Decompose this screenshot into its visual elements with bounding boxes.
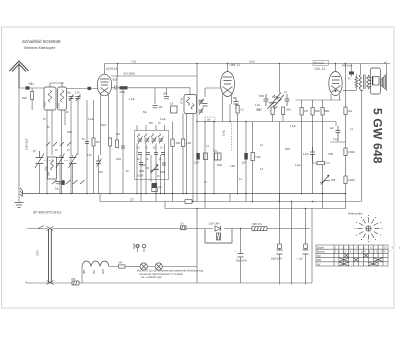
- tube UCH11: [97, 64, 111, 105]
- trimmer C10: [199, 108, 204, 115]
- wire x197 power: [196, 209, 198, 284]
- capacitor C26: [303, 147, 315, 160]
- label UCL11 box: [313, 61, 329, 71]
- svg-text:5000: 5000: [217, 165, 223, 167]
- IF transformer ZF1: [182, 95, 197, 114]
- trimmer C2: [67, 93, 74, 102]
- switch contacts wave band: [46, 142, 71, 146]
- svg-text:UCL 11: UCL 11: [315, 67, 326, 71]
- resistor R12: [300, 100, 309, 194]
- ground chassis arrow: [20, 188, 29, 197]
- capacitor C21 electrolytic: [194, 153, 208, 165]
- svg-text:12 10 9 12 64 8 12 64 7: 12 10 9 12 64 8 12 64 7: [335, 252, 391, 254]
- antenna: [10, 61, 29, 88]
- svg-text:5 GW 648: 5 GW 648: [371, 108, 385, 164]
- component on drop: [152, 188, 157, 192]
- junction dots bus2 bus3: [140, 193, 346, 230]
- transformer secondary: [367, 75, 372, 89]
- svg-text:1,2µF: 1,2µF: [129, 99, 135, 101]
- svg-text:UCL: UCL: [94, 269, 96, 274]
- svg-text:2x45+30pF: 2x45+30pF: [27, 138, 29, 150]
- svg-text:ZF 468 (472 kHz): ZF 468 (472 kHz): [32, 211, 61, 215]
- junction dots mid: [196, 121, 198, 123]
- bus 3: [165, 208, 346, 210]
- capacitor C6: [113, 80, 119, 90]
- svg-text:50µF: 50µF: [113, 80, 119, 82]
- svg-text:Siemens Kleinsuper: Siemens Kleinsuper: [24, 46, 56, 50]
- rotary switch: [348, 213, 371, 232]
- wire x336 drop: [330, 122, 346, 143]
- svg-text:WK 20mA: WK 20mA: [314, 62, 325, 65]
- wire audio line: [197, 121, 336, 123]
- wire top of cans: [50, 83, 62, 87]
- svg-text:Spulen: Spulen: [317, 248, 325, 250]
- svg-text:10µF: 10µF: [194, 163, 200, 165]
- wire UBF grid: [205, 88, 221, 97]
- svg-text:5000: 5000: [285, 149, 291, 151]
- svg-text:0,1µF: 0,1µF: [333, 139, 339, 141]
- svg-text:Wird U (UY 11) nicht verwende: Wird U (UY 11) nicht verwendet dann gest…: [137, 270, 204, 273]
- detector cluster box: [135, 123, 169, 180]
- resistor R3: [92, 138, 101, 146]
- resistor R17: [344, 148, 355, 156]
- wire right chain x345: [345, 64, 347, 194]
- rotary ticks: [358, 218, 380, 240]
- svg-text:U5A: U5A: [71, 278, 76, 281]
- gang dashed link: [44, 160, 68, 162]
- svg-text:Wellenschalter: Wellenschalter: [348, 213, 363, 216]
- svg-text:0,5M: 0,5M: [230, 166, 235, 168]
- svg-text:0,1µ: 0,1µ: [213, 151, 218, 153]
- wire L1 secondary drop: [47, 110, 65, 194]
- note text: [137, 270, 204, 280]
- speaker basket: [370, 68, 380, 94]
- table: [316, 245, 400, 266]
- diode rectifier: [209, 223, 221, 232]
- svg-text:50 kΩ: 50 kΩ: [249, 62, 255, 64]
- coil can L1 Vorkreis: [44, 87, 57, 110]
- svg-text:Bereich: Bereich: [317, 251, 325, 254]
- capacitor C28: [271, 244, 283, 261]
- cluster marks: [139, 163, 166, 173]
- capacitor C7b: [163, 94, 169, 99]
- svg-text:3 kΩ: 3 kΩ: [255, 105, 260, 107]
- lamp L1: [140, 263, 147, 270]
- wire cluster drops: [137, 144, 165, 194]
- wire bottom right up: [311, 209, 313, 284]
- wire trimmer drops: [71, 99, 78, 194]
- svg-text:UCH 250kΩ: UCH 250kΩ: [123, 74, 135, 76]
- svg-text:15 kΩ: 15 kΩ: [224, 130, 226, 136]
- svg-text:8µF: 8µF: [242, 163, 247, 165]
- svg-text:220V: 220V: [37, 250, 40, 256]
- rotary dots: [355, 215, 383, 242]
- tuning capacitor C4c: [69, 154, 78, 194]
- junction dots lineA: [196, 63, 198, 65]
- trimmer C13: [152, 137, 157, 144]
- capacitor C30: [55, 181, 65, 191]
- wire antenna to input: [19, 87, 44, 89]
- box LW: [205, 117, 215, 122]
- resistor R4: [109, 138, 112, 146]
- resistor R20 zigzag: [355, 75, 358, 91]
- trimmer C9: [199, 99, 204, 106]
- resistor R5: [116, 140, 119, 148]
- power top wire: [27, 228, 310, 230]
- resistor R1 1M: [22, 88, 34, 110]
- bus 2: [100, 201, 362, 203]
- capacitor C22: [213, 151, 221, 161]
- capacitor C7: [82, 139, 89, 144]
- svg-text:URB 1/51: URB 1/51: [252, 224, 263, 226]
- capacitor C24: [284, 92, 290, 106]
- svg-text:0,1µF: 0,1µF: [160, 119, 166, 121]
- resistor R19: [348, 64, 354, 81]
- wire right link: [25, 282, 27, 284]
- svg-text:und statt der Gleichrichterroh: und statt der Gleichrichterrohre UY 11 d…: [139, 273, 183, 276]
- wire UBF drops: [214, 104, 253, 202]
- RC network box: [205, 229, 232, 244]
- trimmer C11: [138, 137, 143, 144]
- capacitor C17: [154, 153, 158, 155]
- component G10: [130, 200, 192, 204]
- capacitor C7a: [153, 106, 164, 110]
- svg-text:Schaltbild 5GW648: Schaltbild 5GW648: [22, 39, 61, 44]
- svg-text:2µF: 2µF: [330, 128, 335, 130]
- svg-text:+ 1µF: + 1µF: [297, 259, 303, 261]
- svg-text:1kΩ: 1kΩ: [348, 111, 352, 113]
- svg-text:UBF: UBF: [84, 269, 86, 274]
- svg-text:1kΩ: 1kΩ: [256, 110, 260, 112]
- trimmer C12: [145, 137, 150, 144]
- ground: [15, 203, 24, 208]
- resistor R13: [311, 100, 320, 194]
- resistor R6: [171, 122, 181, 194]
- wire IF drops: [187, 64, 206, 202]
- wire grid feed: [66, 88, 98, 90]
- wire bus link stubs: [141, 194, 323, 209]
- wire drops right power: [280, 194, 306, 285]
- svg-text:0,1µF: 0,1µF: [303, 154, 309, 156]
- capacitor C29: [297, 244, 309, 261]
- svg-text:1MΩ: 1MΩ: [286, 110, 291, 112]
- svg-text:UBF 11: UBF 11: [230, 63, 241, 67]
- wire osc grid drops: [87, 76, 123, 194]
- resistor R14: [321, 100, 330, 194]
- oscillator coil L3: [48, 157, 57, 179]
- svg-text:0,3M: 0,3M: [186, 143, 191, 145]
- wire C4a drop: [39, 164, 41, 194]
- transformer NF diagonal: [268, 93, 285, 112]
- tuning capacitor C4a: [35, 151, 44, 168]
- tuning capacitor C4b: [56, 154, 65, 194]
- svg-text:220V URA: 220V URA: [209, 223, 220, 226]
- svg-text:50µF/100V: 50µF/100V: [236, 261, 248, 263]
- wire bus1-bus3 link: [100, 194, 346, 209]
- resistor R9: [251, 153, 261, 161]
- switch contacts row2: [52, 180, 85, 184]
- svg-text:0,3MΩ: 0,3MΩ: [348, 152, 355, 154]
- trimmer C5 padding: [96, 155, 102, 194]
- coil can L2: [58, 87, 67, 110]
- resistor R8: [236, 104, 244, 194]
- wire driver vertical: [279, 64, 281, 194]
- transformer core: [364, 75, 366, 90]
- svg-text:1 2 3 4 5 6 7 8 9 10: 1 2 3 4 5 6 7 8 9 10: [335, 248, 400, 250]
- resistor R15: [313, 160, 331, 165]
- wire top line A: [105, 63, 391, 65]
- svg-text:0,5M: 0,5M: [256, 157, 261, 159]
- svg-text:3-30: 3-30: [87, 155, 92, 157]
- misc value labels: [33, 127, 354, 184]
- svg-text:1MΩ: 1MΩ: [176, 143, 181, 145]
- svg-text:Vorkr.: Vorkr.: [44, 101, 47, 107]
- switch mains: [38, 226, 44, 229]
- tube UCL11: [329, 64, 342, 101]
- capacitor C18: [161, 153, 165, 155]
- svg-text:mit + verbinden (vgl): mit + verbinden (vgl): [141, 276, 162, 279]
- svg-text:1500: 1500: [59, 102, 61, 108]
- trimmer C3: [75, 93, 81, 102]
- capacitor C1 ant coupling: [26, 84, 35, 90]
- lamp L2: [147, 263, 197, 270]
- capacitor C25: [330, 126, 341, 141]
- capacitor C16: [146, 153, 150, 155]
- svg-text:400Ω: 400Ω: [120, 92, 126, 94]
- capacitor C20b: [233, 97, 239, 110]
- speaker cone: [381, 75, 386, 90]
- svg-text:Osz.: Osz.: [49, 171, 51, 176]
- tube UBF11: [221, 64, 235, 105]
- svg-text:0,1µF: 0,1µF: [290, 126, 296, 128]
- power bottom wire: [26, 282, 312, 284]
- svg-text:0,1µF: 0,1µF: [295, 165, 301, 167]
- wire x361: [361, 90, 363, 202]
- resistor R10: [271, 107, 274, 122]
- wire speaker right: [343, 62, 386, 91]
- svg-text:5MΩ: 5MΩ: [325, 111, 330, 113]
- capacitor C27 electrolytic: [235, 229, 248, 284]
- wire anode branch: [155, 88, 167, 104]
- svg-text:Osz.: Osz.: [46, 165, 48, 170]
- resistor R11: [256, 107, 291, 122]
- svg-text:50µF: 50µF: [101, 125, 107, 127]
- svg-text:UCH: UCH: [103, 269, 105, 274]
- cluster labels: [137, 148, 163, 179]
- svg-text:1200: 1200: [116, 159, 122, 161]
- junction dots bus: [46, 193, 323, 203]
- potentiometer volume: [150, 165, 159, 174]
- table crosses: [339, 253, 383, 266]
- coil L4: [138, 134, 161, 138]
- svg-text:2000: 2000: [67, 132, 73, 134]
- capacitor C21b electrolytic: [242, 153, 248, 165]
- svg-text:ZF Sp: ZF Sp: [182, 97, 184, 104]
- component U5A: [71, 278, 79, 285]
- fuse: [181, 224, 187, 230]
- resistor R25 box: [170, 104, 177, 114]
- wire AVC dashed: [231, 123, 233, 151]
- bus 1 chassis: [29, 193, 346, 195]
- svg-text:PhB: PhB: [331, 180, 336, 182]
- mains lead double: [47, 227, 54, 285]
- transformer output primary: [359, 64, 361, 91]
- svg-text:1MΩ: 1MΩ: [22, 98, 27, 100]
- resistor R18: [344, 176, 355, 184]
- svg-text:UCH 11: UCH 11: [106, 67, 117, 71]
- resistor R21 640: [119, 263, 141, 269]
- capacitor C19 electrolytic: [152, 183, 163, 189]
- svg-text:2-10: 2-10: [75, 93, 80, 95]
- svg-text:50pF: 50pF: [199, 101, 205, 103]
- svg-text:3MΩ: 3MΩ: [315, 111, 320, 113]
- svg-text:0,1µF: 0,1µF: [88, 119, 94, 121]
- svg-text:100pF: 100pF: [137, 176, 144, 178]
- svg-text:5000: 5000: [259, 96, 265, 98]
- heater chain bumps: [82, 261, 119, 283]
- svg-text:7 kΩ: 7 kΩ: [131, 62, 136, 64]
- resistor R2 anode: [112, 86, 191, 94]
- svg-text:0,5M: 0,5M: [328, 154, 333, 156]
- capacitor C20: [199, 101, 208, 107]
- potentiometer PhB: [320, 175, 336, 185]
- coupling network C23: [259, 94, 269, 106]
- resistor URB hatched: [252, 224, 267, 231]
- svg-text:50µF/100V: 50µF/100V: [271, 259, 283, 261]
- svg-text:0,3MΩ: 0,3MΩ: [348, 180, 355, 182]
- wire UCL cathode row: [296, 99, 342, 101]
- capacitor C15: [138, 153, 142, 155]
- trimmer C14: [159, 137, 164, 144]
- capacitor C8: [121, 146, 125, 148]
- resistor R16: [344, 107, 352, 115]
- jack symbols: [134, 243, 146, 252]
- resistor R7: [181, 114, 191, 194]
- wire antenna lead down to ground: [18, 88, 20, 202]
- wire line B screen: [111, 64, 197, 77]
